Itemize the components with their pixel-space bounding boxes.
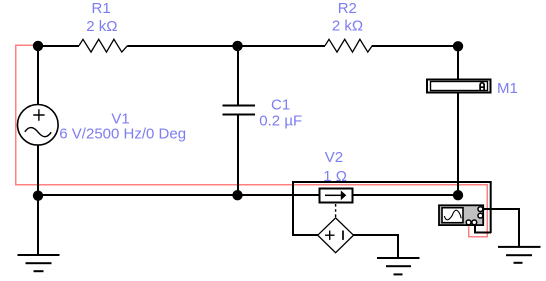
svg-text:0.2 µF: 0.2 µF — [259, 113, 302, 130]
wire: left vertical V1 bottom — [37, 144, 39, 196]
wire: red horizontal under scope — [468, 236, 488, 238]
wire: black horizontal under scope — [474, 232, 491, 234]
wire: right vertical below M1 — [457, 93, 459, 195]
wire: control loop left vertical — [292, 181, 294, 235]
svg-text:6 V/2500 Hz/0 Deg: 6 V/2500 Hz/0 Deg — [59, 126, 186, 143]
wire: red stub to top-left node — [15, 45, 34, 47]
wire: middle vertical below C1 — [237, 115, 239, 195]
wire: diamond left horizontal — [292, 234, 318, 236]
wire: scope ground horizontal — [483, 208, 519, 210]
wire: top horizontal right of R2 — [372, 45, 458, 47]
wire: bottom horizontal left of V2 sensor — [37, 194, 319, 196]
wire: diamond right horizontal — [353, 234, 398, 236]
wire: left vertical to ground — [37, 196, 39, 255]
ground left — [18, 254, 60, 272]
wire: red vertical right of scope — [487, 184, 489, 238]
wire: top horizontal node segment left of R1 — [37, 45, 79, 47]
wire: black vertical to scope terminal — [474, 226, 476, 233]
junction node top-left — [33, 41, 43, 51]
wire: vertical to middle ground — [397, 234, 399, 258]
ammeter M1 — [427, 80, 491, 93]
V2 current sensor box — [320, 189, 353, 203]
capacitor C1 — [223, 105, 256, 107]
resistor R1 — [79, 39, 128, 52]
resistor R2 — [325, 39, 372, 52]
junction node bottom-middle — [232, 190, 242, 200]
junction node top-middle — [232, 41, 242, 51]
ground right — [498, 246, 541, 264]
svg-text:2 kΩ: 2 kΩ — [86, 18, 117, 35]
junction node bottom-right — [453, 190, 463, 200]
ground middle — [377, 257, 420, 275]
wire: right vertical above M1 — [457, 46, 459, 79]
wire: control loop right vertical — [490, 181, 492, 233]
wire: top horizontal between R1 and R2 — [128, 45, 326, 47]
svg-text:2 kΩ: 2 kΩ — [332, 18, 363, 35]
svg-text:M1: M1 — [497, 80, 518, 97]
svg-text:R2: R2 — [338, 0, 357, 17]
oscilloscope — [439, 205, 483, 225]
wire: red long horizontal to scope — [15, 184, 488, 186]
wire: scope ground vertical — [518, 208, 520, 247]
wire: red vertical to scope terminal — [468, 226, 470, 238]
wire: left vertical V1 top — [37, 45, 39, 105]
svg-text:1 Ω: 1 Ω — [323, 168, 347, 185]
svg-text:R1: R1 — [92, 0, 111, 17]
junction node bottom-left — [33, 191, 43, 201]
svg-text:C1: C1 — [271, 97, 290, 114]
AC source V1 — [18, 105, 59, 146]
wire: control loop top horizontal — [292, 181, 491, 183]
svg-text:V2: V2 — [325, 149, 343, 166]
wire: red channel-A probe vertical left — [15, 45, 17, 186]
wire: middle vertical above C1 — [237, 46, 239, 106]
control link dashed — [335, 204, 337, 218]
wire: bottom horizontal right of V2 sensor — [353, 194, 458, 196]
dependent source V2 diamond — [318, 218, 354, 253]
junction node top-right — [453, 41, 463, 51]
